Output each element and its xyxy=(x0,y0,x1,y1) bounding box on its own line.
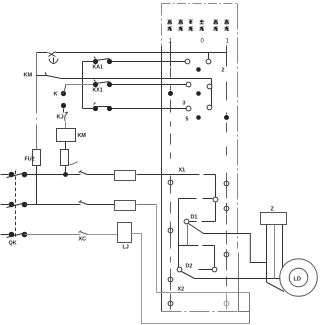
svg-text:LJ: LJ xyxy=(123,245,129,251)
wire: riser x=249 xyxy=(249,293,251,324)
coil KM xyxy=(57,129,76,142)
wire: row 1 (to X1) xyxy=(25,174,81,176)
D1 fixed-side stub xyxy=(190,221,216,223)
cam dots row3 xyxy=(196,115,201,120)
brush diagonal to LD xyxy=(267,283,284,292)
frame bottom edge xyxy=(162,311,238,313)
cam circle 2L xyxy=(186,82,191,87)
svg-text:KM: KM xyxy=(24,73,33,79)
tap circle C1 xyxy=(213,197,218,202)
wire: row 3 (via XC and LJ) xyxy=(25,234,81,236)
wire: D1 moving terminal down xyxy=(187,225,189,246)
cam contact row 1: drop from top line xyxy=(208,53,210,60)
contact KM (NO) xyxy=(37,75,47,77)
knife switch QK pole 2 xyxy=(1,204,9,206)
svg-text:5: 5 xyxy=(186,117,189,123)
svg-text:QK: QK xyxy=(9,241,17,247)
svg-text:X2: X2 xyxy=(178,287,185,293)
svg-text:3: 3 xyxy=(183,101,186,107)
cam circle 1R xyxy=(206,59,211,64)
cam position numbers 1 0 1 xyxy=(169,39,230,45)
frame: cam controller + resistor enclosure (dash-dot border) xyxy=(162,4,238,249)
wire: top supply line y=52.2 xyxy=(37,52,48,54)
frame left edge (solid lower part) xyxy=(161,47,163,312)
fuse FU1 (below KM coil) xyxy=(61,150,69,166)
svg-text:Z: Z xyxy=(271,207,275,213)
wire: left bus x=36.3 (top to FU2 to row2) xyxy=(36,53,38,150)
svg-text:FU2: FU2 xyxy=(25,157,35,163)
terminal c2R xyxy=(224,206,229,211)
wire: LJ to bottom rail xyxy=(131,234,250,324)
cam circle 1L xyxy=(185,59,190,64)
QK mechanical link (dashed) xyxy=(15,171,17,238)
terminal X1-R xyxy=(224,181,229,186)
wire: K to KX1 row xyxy=(66,84,96,86)
cam circle 3L xyxy=(186,106,191,111)
svg-text:KM: KM xyxy=(78,133,87,139)
terminal strikes xyxy=(170,177,172,310)
wire: D2 to motor LD xyxy=(195,278,281,280)
svg-text:LD: LD xyxy=(294,277,301,283)
third row contact (with NC tick) xyxy=(93,106,98,111)
terminal c4L xyxy=(168,301,173,306)
wire: KM row to cam x=209 xyxy=(62,78,212,80)
anchor symbol (manual operation) xyxy=(53,58,55,63)
svg-text:2: 2 xyxy=(222,68,225,74)
resistor box row 1 xyxy=(115,171,136,181)
contact in row 1 xyxy=(79,171,88,175)
knife switch QK pole 3 xyxy=(1,234,9,236)
cam position line 1 (left) xyxy=(170,43,172,67)
Z leads down xyxy=(266,225,268,283)
terminal c2L xyxy=(168,228,173,233)
terminal X1-L xyxy=(168,180,173,185)
wire: bracket down to D2 right terminal xyxy=(214,246,216,268)
relay coil LJ xyxy=(118,223,132,243)
fuse FU2 (on left bus) xyxy=(33,150,41,166)
bracket: tap to D2 xyxy=(179,198,213,200)
emergency switch SA (blade + cross) xyxy=(49,53,56,57)
motor LD xyxy=(280,259,318,297)
wire: KA1 bus bracket x=81.9 xyxy=(82,62,84,109)
resistor frame internal dash columns xyxy=(170,176,172,291)
svg-text:D2: D2 xyxy=(186,264,193,270)
terminal c3L xyxy=(168,277,173,282)
svg-text:KX1: KX1 xyxy=(93,88,103,94)
knife switch QK pole 1 xyxy=(1,174,9,176)
svg-text:D1: D1 xyxy=(191,215,198,221)
relay contact KA1 xyxy=(93,59,98,64)
terminal c3R xyxy=(224,252,229,257)
svg-text:X1: X1 xyxy=(179,168,186,174)
wire: X1 line down to tap circle C1 xyxy=(215,175,217,198)
wire: D1 to Z tap xyxy=(204,234,267,263)
svg-text:XC: XC xyxy=(79,237,87,243)
wire: row 2 down to X2 bus xyxy=(157,205,250,293)
cam dots row2 xyxy=(168,91,173,96)
wire: row 2 xyxy=(25,204,81,206)
svg-text:KJ: KJ xyxy=(57,115,64,121)
wire: jog from x=238 xyxy=(239,253,250,312)
cam position line 1 (right) xyxy=(226,46,228,67)
cam dot row1 middle xyxy=(196,67,201,72)
terminal c4R xyxy=(224,301,229,306)
contact in row 2 xyxy=(79,201,88,205)
svg-text:K: K xyxy=(54,92,58,98)
resistor box row 2 xyxy=(115,201,136,211)
relay contact KX1 xyxy=(93,82,98,87)
svg-text:KA1: KA1 xyxy=(93,65,103,71)
cam circle 2R + 3R with link xyxy=(207,84,212,89)
